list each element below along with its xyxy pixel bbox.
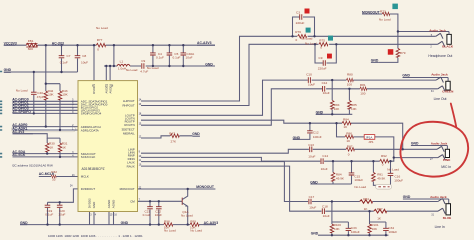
svg-text:BLUE: BLUE xyxy=(443,216,451,220)
red annotation tail stroke xyxy=(451,104,456,127)
capacitor C5 xyxy=(167,52,181,60)
wire: AC-ADR1 net xyxy=(13,129,79,131)
svg-text:No Load: No Load xyxy=(164,229,176,233)
resistor R92 xyxy=(380,154,389,167)
svg-text:10uF: 10uF xyxy=(323,214,330,218)
svg-text:10K: 10K xyxy=(334,227,340,231)
svg-text:LHPOUT: LHPOUT xyxy=(123,99,135,103)
wire: AC-GPIO2 net xyxy=(13,106,79,108)
svg-text:AC-A3V3: AC-A3V3 xyxy=(197,41,212,45)
svg-text:C8: C8 xyxy=(82,54,86,58)
svg-text:No Load: No Load xyxy=(301,37,313,41)
wire: AC-SCK net xyxy=(13,156,79,158)
wire: mic bias branch xyxy=(337,123,394,157)
resistor R30 legs xyxy=(46,138,48,154)
svg-text:DVDD2: DVDD2 xyxy=(88,198,92,208)
resistor R76 xyxy=(295,30,312,42)
svg-text:GND: GND xyxy=(411,142,419,146)
svg-text:SPDIFO/GPIO4: SPDIFO/GPIO4 xyxy=(81,112,102,116)
svg-text:100uF: 100uF xyxy=(354,178,363,182)
resistor R84 line-in xyxy=(360,197,373,211)
svg-text:10uF: 10uF xyxy=(323,91,330,95)
svg-text:No Load: No Load xyxy=(96,26,108,30)
wire: AC-GPIO1 net xyxy=(13,103,79,105)
svg-text:100: 100 xyxy=(360,92,365,96)
svg-text:10uF: 10uF xyxy=(309,206,316,210)
svg-text:GND: GND xyxy=(403,195,411,199)
svg-text:0: 0 xyxy=(348,153,350,157)
svg-text:R84: R84 xyxy=(343,118,349,122)
resistor R80 xyxy=(346,73,353,87)
svg-text:0: 0 xyxy=(320,45,322,49)
svg-text:10uF: 10uF xyxy=(308,82,315,86)
svg-text:MIDRAIL: MIDRAIL xyxy=(123,132,135,136)
svg-text:GND: GND xyxy=(402,74,410,78)
svg-text:No Load: No Load xyxy=(181,213,193,217)
wire: MONOOUT bottom net xyxy=(138,188,216,190)
audio jack J4 line in xyxy=(403,195,451,229)
capacitor C34 xyxy=(383,226,397,234)
wire: line-out GND bar xyxy=(316,113,353,115)
resistor R85 line-out shunt xyxy=(348,100,358,111)
test square red 3 xyxy=(388,49,394,55)
capacitor C3 xyxy=(296,11,305,25)
resistor R42 xyxy=(44,89,55,100)
svg-text:10K: 10K xyxy=(48,93,54,97)
capacitor C4 xyxy=(150,52,164,60)
wire: AC-GPIO0 net xyxy=(13,100,79,102)
capacitor C20 xyxy=(57,205,66,217)
svg-text:GND: GND xyxy=(311,232,319,236)
capacitor C13 xyxy=(308,143,315,158)
svg-text:FB1: FB1 xyxy=(28,39,34,43)
svg-text:AGND: AGND xyxy=(107,200,111,208)
svg-text:No Load: No Load xyxy=(354,185,366,189)
svg-text:No Load: No Load xyxy=(126,68,138,72)
resistor R84 line-out shunt xyxy=(330,100,340,111)
resistor R84b mic shunt xyxy=(331,172,345,181)
svg-text:BLACK: BLACK xyxy=(442,45,454,49)
resistor R86 xyxy=(342,118,351,130)
svg-text:GND: GND xyxy=(310,180,318,184)
wire: mic upper row xyxy=(141,149,437,153)
resistor R43 legs xyxy=(59,84,61,130)
svg-text:AC-MCLK: AC-MCLK xyxy=(39,172,55,176)
svg-text:Audio Jack: Audio Jack xyxy=(431,73,448,77)
inductor L1 wire segment and C9 legs xyxy=(130,65,215,67)
capacitor C9b xyxy=(318,56,327,70)
test square red 1 xyxy=(305,9,310,14)
wire: DVDD pin drop xyxy=(93,45,95,80)
resistor R81 xyxy=(360,83,367,96)
svg-text:C12: C12 xyxy=(322,81,328,85)
capacitor C12 mic shunt xyxy=(307,131,322,139)
svg-text:R98: R98 xyxy=(164,219,170,223)
svg-text:GREEN: GREEN xyxy=(442,89,454,93)
capacitor C8 legs xyxy=(77,45,79,72)
svg-text:No Load: No Load xyxy=(190,229,202,233)
svg-text:R87: R87 xyxy=(347,144,353,148)
audio jack J2 line out xyxy=(402,73,454,101)
inductor L1 xyxy=(117,59,138,72)
svg-text:Audio Jack: Audio Jack xyxy=(429,29,446,33)
colored test point squares xyxy=(305,4,398,59)
svg-text:C10: C10 xyxy=(306,73,312,77)
ferrite bead FB1 xyxy=(26,39,37,51)
wire: AVDD branch xyxy=(104,45,117,66)
svg-text:R86: R86 xyxy=(346,131,352,135)
svg-text:C17: C17 xyxy=(309,195,315,199)
svg-text:27K: 27K xyxy=(171,140,177,144)
svg-text:0.1uF: 0.1uF xyxy=(143,213,151,217)
svg-text:220uF: 220uF xyxy=(318,67,327,71)
svg-text:L1: L1 xyxy=(120,59,124,63)
svg-text:0.1uF: 0.1uF xyxy=(60,60,68,64)
capacitor C6A legs xyxy=(182,45,184,66)
wire: MIC main run xyxy=(141,120,403,149)
wire: MIDRAIL to R47 xyxy=(141,136,192,138)
capacitor C19 xyxy=(45,205,54,217)
svg-text:C13: C13 xyxy=(308,143,314,147)
svg-text:JP1A: JP1A xyxy=(365,136,372,140)
svg-text:SCK/CCLK: SCK/CCLK xyxy=(81,155,96,159)
wire: chip bottom ground legs xyxy=(90,212,114,225)
resistor R87 line-in xyxy=(374,207,387,220)
svg-text:R80: R80 xyxy=(347,73,353,77)
resistor R98 xyxy=(164,219,176,232)
svg-text:C3: C3 xyxy=(296,11,300,15)
svg-text:Audio Jack: Audio Jack xyxy=(431,142,448,146)
pin ADC_SDATA/GPIO1 xyxy=(81,84,135,209)
svg-text:0.1uF: 0.1uF xyxy=(45,213,53,217)
resistor R42 legs xyxy=(45,84,47,127)
pin numbers xyxy=(70,85,142,217)
capacitor C9 series xyxy=(140,59,158,73)
svg-text:10uF: 10uF xyxy=(58,213,65,217)
svg-text:100uF: 100uF xyxy=(394,178,403,182)
no-load link pill xyxy=(376,184,392,189)
wire: line-in W6 run xyxy=(141,162,438,202)
svg-text:PINK: PINK xyxy=(443,158,451,162)
capacitor C40 legs xyxy=(33,72,35,113)
svg-text:10uF: 10uF xyxy=(155,213,162,217)
wire: AC-SPDIFO net xyxy=(13,112,79,114)
wire: bottom GND rail xyxy=(20,224,216,226)
wire: CM net with caps xyxy=(138,201,183,224)
capacitor C7 xyxy=(59,54,71,64)
svg-text:DVDDOUT: DVDDOUT xyxy=(81,187,96,191)
wire: headphone sleeve to jack xyxy=(398,31,449,33)
svg-text:Headphone Out: Headphone Out xyxy=(428,54,452,58)
svg-text:R99: R99 xyxy=(190,219,196,223)
resistor R101 xyxy=(368,223,379,233)
svg-text:GND: GND xyxy=(92,202,96,208)
red annotation ellipse around MIC In xyxy=(400,122,468,177)
jumper JP1 xyxy=(364,135,375,144)
svg-text:GND: GND xyxy=(192,132,200,136)
wire: line-in shunt pair 1 xyxy=(332,202,349,236)
wire: AC-GPIO3 net xyxy=(13,109,79,111)
capacitor C17 xyxy=(309,195,317,210)
svg-text:AGND: AGND xyxy=(112,200,116,208)
svg-text:ADR1/CDATA: ADR1/CDATA xyxy=(81,129,99,133)
resistor R77 xyxy=(96,26,108,52)
svg-text:R76: R76 xyxy=(295,30,301,34)
svg-text:10uF: 10uF xyxy=(186,56,193,60)
svg-text:MIC In: MIC In xyxy=(441,165,451,169)
wire: RHPOUT run xyxy=(141,44,438,105)
svg-text:CM: CM xyxy=(130,200,135,204)
svg-text:100nF: 100nF xyxy=(313,135,322,139)
svg-text:MCLK: MCLK xyxy=(81,175,89,179)
capacitor C18 xyxy=(322,204,330,218)
svg-text:R75: R75 xyxy=(319,38,325,42)
capacitor C33 xyxy=(346,226,360,234)
svg-text:AD1981B/BCPZ: AD1981B/BCPZ xyxy=(82,167,105,171)
capacitor C10 xyxy=(306,73,315,87)
wire: VCC3V3 power rail xyxy=(4,44,215,46)
svg-text:100: 100 xyxy=(347,82,352,86)
svg-text:No Load: No Load xyxy=(379,18,391,22)
resistor R31 xyxy=(58,142,68,152)
svg-text:R73: R73 xyxy=(380,10,386,14)
wire: AC-3V3 stub xyxy=(13,134,61,138)
audio jack J1 headphone xyxy=(428,29,453,58)
capacitor C21 xyxy=(143,207,153,217)
svg-text:GND: GND xyxy=(4,68,12,72)
svg-text:R87: R87 xyxy=(377,207,383,211)
svg-text:RAUX: RAUX xyxy=(127,165,135,169)
wire: MONOOUT top net xyxy=(362,14,398,62)
resistor R30 xyxy=(45,142,55,152)
capacitor C12 shunt legs xyxy=(293,123,310,139)
wire: AC-MCLK net xyxy=(39,176,78,178)
svg-text:ROUTN: ROUTN xyxy=(124,123,134,127)
svg-text:10K: 10K xyxy=(334,107,340,111)
wire: C3 bypass loop xyxy=(293,17,315,36)
svg-text:47pF: 47pF xyxy=(37,95,44,99)
resistor R88 xyxy=(345,131,353,143)
op-amp codec U1 AD1981B body xyxy=(78,81,138,212)
wire: line-in W7 run xyxy=(141,166,438,211)
resistor R79 xyxy=(396,48,406,57)
wire: LOUTP run to line out xyxy=(141,80,436,115)
svg-text:GND: GND xyxy=(121,221,129,225)
svg-text:R77: R77 xyxy=(97,38,103,42)
test square teal 3 xyxy=(392,4,398,10)
resistor R47 xyxy=(169,132,179,144)
capacitor C5 legs xyxy=(168,45,170,66)
svg-text:Line Out: Line Out xyxy=(434,97,447,101)
svg-text:Audio Jack: Audio Jack xyxy=(430,195,447,199)
capacitor C8 xyxy=(75,54,88,64)
svg-text:10K: 10K xyxy=(62,93,68,97)
svg-text:R84: R84 xyxy=(363,197,369,201)
svg-text:49.9K: 49.9K xyxy=(377,177,386,181)
resistor R73 xyxy=(379,10,391,22)
svg-text:R81: R81 xyxy=(360,83,366,87)
svg-text:0: 0 xyxy=(97,47,99,51)
svg-text:MONOOUT: MONOOUT xyxy=(120,187,135,191)
wire: line-in shunt pair 2 xyxy=(370,211,386,235)
wire: ROUTP run to line out xyxy=(141,89,438,125)
svg-text:R79: R79 xyxy=(400,51,406,55)
svg-text:C7: C7 xyxy=(67,54,71,58)
wire: pull-up feed from 3V3 rail xyxy=(46,45,60,83)
wire: C9 bypass loop lower xyxy=(315,44,336,63)
svg-text:10uF: 10uF xyxy=(308,154,315,158)
svg-text:220uF: 220uF xyxy=(296,21,305,25)
svg-text:C14: C14 xyxy=(322,154,328,158)
resistor R75 xyxy=(305,38,328,49)
svg-text:AC-SPDIFO: AC-SPDIFO xyxy=(12,110,31,114)
capacitor C40 xyxy=(16,89,44,99)
test square teal 2 xyxy=(328,36,333,41)
svg-text:0.1uF: 0.1uF xyxy=(156,56,164,60)
svg-text:4.7uF: 4.7uF xyxy=(140,69,148,73)
wire: line-out shunt R85 leg xyxy=(348,89,350,115)
svg-text:100R 1206 100R 1206 100R 120: 100R 1206 100R 1206 100R 1206 · · · · · … xyxy=(48,234,143,238)
wire: AC-ADR0 net xyxy=(13,126,79,128)
wire: mic lower row xyxy=(141,157,438,161)
svg-text:R92: R92 xyxy=(381,154,387,158)
wire: GND return top-left xyxy=(4,71,78,73)
capacitor C15 mic shunt xyxy=(349,173,367,189)
wire: DVDDOUT decoupling xyxy=(48,189,79,225)
wire: AVDD pin drops xyxy=(106,66,110,81)
resistor R43 xyxy=(58,89,68,100)
net label VCC3V3 xyxy=(4,10,381,235)
resistor R31 legs xyxy=(59,138,61,157)
resistor R99 xyxy=(190,219,202,232)
svg-text:49.9K: 49.9K xyxy=(336,177,345,181)
test square teal 1 xyxy=(306,28,311,33)
resistor R91 mic shunt xyxy=(372,172,387,181)
svg-text:C9: C9 xyxy=(319,56,323,60)
svg-text:No Load: No Load xyxy=(16,89,28,93)
wire: LHPOUT run to headphone network xyxy=(141,36,436,101)
capacitor C7 legs xyxy=(61,45,63,72)
clipped net flags at left edge xyxy=(0,72,2,157)
svg-text:AC-SCK: AC-SCK xyxy=(12,153,26,157)
resistor R100 xyxy=(330,223,341,233)
capacitor C4 legs xyxy=(152,45,154,66)
capacitor C6A xyxy=(181,52,196,60)
svg-text:I2C address 011010A1A0 R/W: I2C address 011010A1A0 R/W xyxy=(12,163,53,167)
svg-text:100uF: 100uF xyxy=(388,230,397,234)
net highlight pill ADR1 xyxy=(12,127,76,132)
wire: AC-SDA net xyxy=(13,153,79,155)
resistor R32 xyxy=(51,170,57,182)
wire: mic shunt loop xyxy=(373,161,390,185)
wire: mic shunt pair A legs xyxy=(310,161,351,184)
svg-text:0.1uF: 0.1uF xyxy=(173,56,181,60)
transistor Q1A xyxy=(181,189,193,225)
svg-text:100uF: 100uF xyxy=(351,230,360,234)
capacitor C14 xyxy=(321,154,329,171)
wire: line-in GND bar xyxy=(318,234,388,236)
svg-text:0: 0 xyxy=(296,38,298,42)
capacitor C12 line-out xyxy=(322,81,330,95)
capacitor C22 xyxy=(155,207,162,217)
svg-text:C18: C18 xyxy=(322,204,328,208)
capacitor C16 mic shunt xyxy=(387,167,403,182)
svg-text:C9: C9 xyxy=(141,59,145,63)
wire: line-out shunt R84 leg xyxy=(331,80,333,114)
svg-text:JP1: JP1 xyxy=(368,140,374,144)
svg-text:RHPOUT: RHPOUT xyxy=(122,104,134,108)
svg-text:No Load: No Load xyxy=(387,167,399,171)
svg-text:33: 33 xyxy=(52,178,56,182)
svg-text:0: 0 xyxy=(382,163,384,167)
svg-text:R47: R47 xyxy=(169,132,175,136)
svg-text:600: 600 xyxy=(28,47,33,51)
svg-text:10uF: 10uF xyxy=(321,167,328,171)
svg-text:10uF: 10uF xyxy=(81,60,88,64)
svg-text:Line In: Line In xyxy=(435,225,445,229)
svg-text:10K: 10K xyxy=(372,227,378,231)
svg-text:10K: 10K xyxy=(351,107,357,111)
CHIP_TOPPINS underlines for net labels xyxy=(4,14,380,225)
audio jack J3 mic in xyxy=(411,142,451,169)
test square red 2 xyxy=(327,54,332,59)
resistor R87 mic series xyxy=(346,144,354,156)
